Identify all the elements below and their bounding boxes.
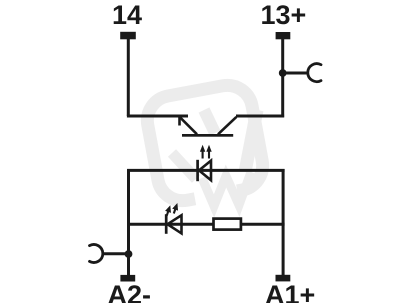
label A2- <box>108 282 152 303</box>
LED D2 cathode bar <box>165 214 168 234</box>
terminal 14 <box>120 32 136 40</box>
LED D2 light arrows <box>164 202 181 217</box>
connector socket left (opens left) <box>90 244 103 262</box>
LED D1 triangle <box>199 161 211 181</box>
watermark logo <box>143 81 267 206</box>
lower loop right wire <box>282 169 285 276</box>
wire top-right horizontal <box>236 115 284 118</box>
lower loop left wire <box>127 169 130 276</box>
wire stub to left connector <box>103 252 129 255</box>
lower loop top wire <box>127 169 285 172</box>
transistor Q1 emitter diagonal <box>180 117 197 134</box>
junction node A2 <box>125 250 133 258</box>
photo arrows to transistor <box>200 145 212 159</box>
wire 13 down <box>281 38 284 117</box>
resistor R1 <box>214 219 241 230</box>
wire stub to right connector <box>283 72 309 75</box>
wire top-left horizontal <box>127 115 188 118</box>
transistor Q1 base bar <box>182 134 233 137</box>
terminal 13 <box>276 32 291 39</box>
junction node on 13 wire <box>279 69 287 77</box>
lower loop middle wire <box>127 223 285 226</box>
label A1+ <box>265 282 315 303</box>
label 13+ <box>261 2 307 29</box>
transistor Q1 emitter arrow barb <box>178 117 181 126</box>
terminal A2 <box>120 275 135 282</box>
connector socket right (opens right) <box>308 64 321 82</box>
label 14 <box>112 2 142 29</box>
LED D1 (optocoupler emitter) cathode bar <box>196 160 199 181</box>
wire 14 down <box>127 39 130 116</box>
transistor Q1 collector diagonal <box>218 117 236 134</box>
LED D2 triangle <box>168 215 182 233</box>
terminal A1 <box>276 275 291 282</box>
